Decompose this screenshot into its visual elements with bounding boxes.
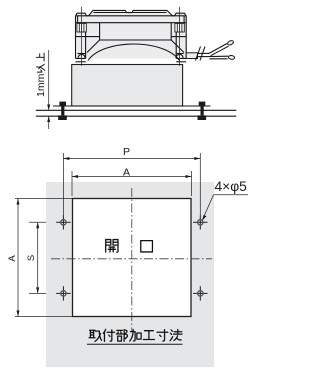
svg-text:P: P (123, 146, 130, 158)
svg-text:4×φ5: 4×φ5 (215, 179, 248, 194)
svg-text:A: A (7, 255, 18, 262)
svg-text:1mm: 1mm (35, 73, 47, 97)
svg-text:S: S (26, 255, 37, 261)
svg-text:A: A (123, 166, 130, 178)
